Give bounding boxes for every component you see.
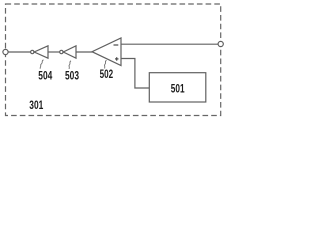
svg-text:503: 503 [65, 69, 79, 83]
svg-text:502: 502 [100, 67, 114, 81]
svg-text:301: 301 [29, 98, 43, 112]
svg-text:504: 504 [38, 69, 52, 83]
svg-text:501: 501 [171, 81, 185, 95]
